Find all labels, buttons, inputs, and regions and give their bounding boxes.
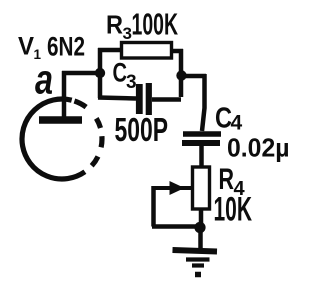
svg-text:a: a [35, 56, 53, 103]
wire output down to C4 [202, 74, 205, 131]
wire C3 right lead [152, 97, 181, 102]
ground node junction dot [194, 222, 205, 233]
svg-text:0.02µ: 0.02µ [227, 133, 290, 163]
svg-text:500P: 500P [115, 111, 169, 148]
wiper arrowhead of R4 [170, 181, 185, 195]
svg-text:4: 4 [231, 112, 243, 135]
svg-text:C: C [215, 103, 232, 135]
resistor R3 body [122, 43, 172, 59]
wire ground stem [198, 229, 203, 250]
svg-text:3: 3 [126, 72, 137, 93]
wire feedback vertical [151, 186, 156, 227]
node A junction dot [95, 68, 105, 78]
wire anode to node A [62, 71, 100, 76]
svg-text:R: R [106, 10, 123, 40]
wire anode stem [62, 71, 67, 117]
wire left bus vertical [98, 48, 103, 98]
capacitor C3 left plate [136, 84, 143, 114]
ground bar 4 [195, 272, 201, 278]
wire wiper horizontal [154, 186, 192, 190]
tube V1 anode plate [39, 116, 82, 124]
wire output horizontal [181, 74, 206, 79]
svg-text:C: C [113, 58, 128, 88]
ground bar 1 [173, 250, 218, 252]
wire feedback bottom [152, 224, 200, 229]
svg-text:100K: 100K [132, 8, 179, 42]
resistor R4 body [193, 167, 210, 209]
wire R4 to ground node [199, 209, 204, 229]
wire C4 to R4 [199, 146, 204, 168]
wire R3 left lead [98, 48, 121, 53]
capacitor C3 right plate [146, 83, 152, 115]
wire R3 right lead [172, 49, 184, 54]
svg-text:10K: 10K [214, 191, 253, 229]
svg-text:V: V [18, 33, 34, 61]
wire C3 left lead [98, 98, 136, 99]
capacitor C4 top plate [183, 131, 221, 137]
tube V1 envelope dashed arc [74, 101, 102, 166]
capacitor C4 bottom plate [182, 140, 220, 146]
ground bar 3 [192, 263, 204, 267]
ground bar 2 [186, 257, 210, 261]
tube V1 envelope solid arc [22, 99, 85, 179]
wire right bus vertical [179, 49, 184, 97]
output node junction dot [176, 70, 186, 80]
